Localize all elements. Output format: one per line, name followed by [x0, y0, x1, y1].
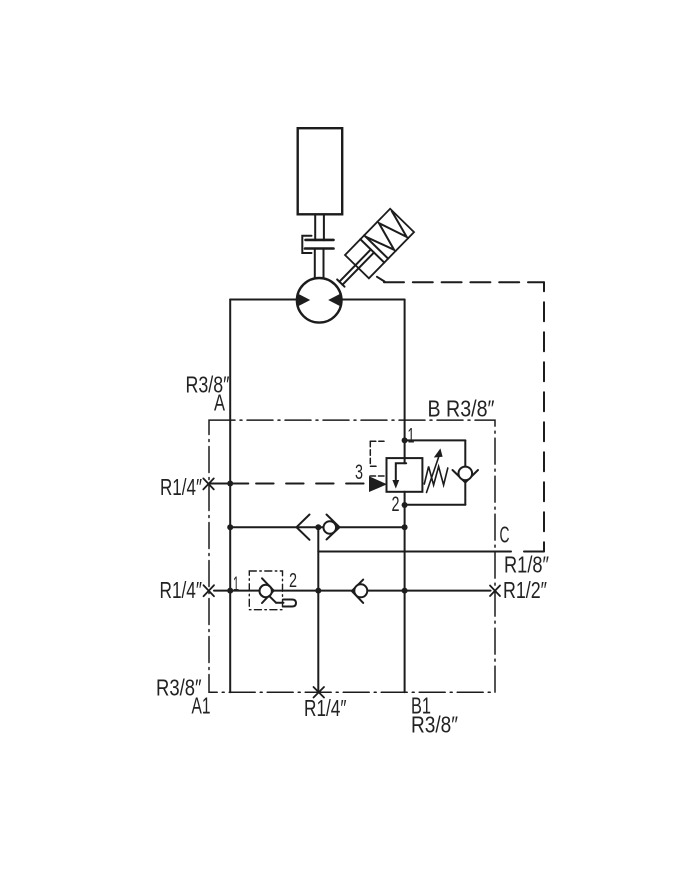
junction dot B-line — [402, 524, 408, 530]
svg-text:R1/4″: R1/4″ — [160, 474, 202, 500]
flow arrowhead left — [297, 515, 310, 540]
svg-text:C: C — [500, 522, 510, 548]
svg-text:3: 3 — [355, 461, 363, 484]
bypass loop top — [405, 439, 466, 441]
bypass loop right upper — [464, 440, 466, 466]
node 1 junction — [402, 437, 408, 443]
pump arrow left — [297, 293, 310, 306]
wire A-line left vertical — [229, 300, 231, 693]
pilot check valve PC1 dashed box — [249, 571, 282, 610]
svg-text:A1: A1 — [192, 693, 211, 719]
check valve CV3 seat — [352, 580, 363, 603]
svg-text:R3/8″: R3/8″ — [411, 712, 458, 738]
coupling disc — [306, 239, 334, 242]
PC1 ball — [260, 585, 272, 597]
svg-text:1: 1 — [408, 425, 415, 448]
junction dot lower mid — [315, 588, 321, 594]
svg-text:R1/8″: R1/8″ — [504, 552, 549, 578]
relief valve V1 body — [387, 458, 423, 492]
node 2 junction — [402, 502, 408, 508]
PC1 drain hook — [269, 596, 276, 603]
pilot sense junction dot — [227, 481, 233, 487]
brake actuator cylinder (rotated) — [329, 209, 414, 295]
pump arrow right — [328, 293, 341, 306]
port X pilot R1/4 — [203, 478, 214, 489]
check valve CV2 ball — [324, 521, 337, 534]
bypass loop right lower — [464, 480, 466, 505]
wire pump right — [342, 299, 405, 301]
port X right R1/2 — [490, 586, 500, 597]
relief adjust arrow — [427, 455, 440, 493]
rod end cap — [337, 279, 344, 286]
relief valve internal arrowhead — [392, 480, 399, 489]
relief valve spring — [424, 467, 448, 486]
svg-text:R1/2″: R1/2″ — [503, 577, 547, 603]
junction dot lower B-line — [402, 588, 408, 594]
relief valve internal path — [396, 463, 406, 481]
piston — [360, 239, 384, 262]
pilot line from actuator (dashed) — [377, 277, 385, 282]
relief valve pilot box (dashed) — [370, 441, 387, 476]
check valve CV1 seat — [453, 470, 479, 483]
shaft lower — [314, 249, 316, 279]
rod — [339, 249, 370, 281]
shaft upper — [314, 214, 316, 240]
junction dot lower A-line — [227, 588, 233, 594]
manifold boundary box (dash-dot) — [209, 420, 495, 692]
relief pilot arrowhead — [369, 476, 387, 492]
svg-text:R1/4″: R1/4″ — [304, 695, 347, 721]
spring — [366, 211, 413, 258]
wire B-line right vertical upper — [404, 300, 406, 464]
svg-text:B R3/8″: B R3/8″ — [428, 396, 495, 422]
pilot sense line (dashed) — [256, 483, 369, 485]
svg-text:2: 2 — [289, 570, 297, 592]
junction dot A-line — [227, 524, 233, 530]
wire pump left — [230, 299, 297, 301]
C port line — [318, 551, 511, 553]
junction dot mid — [315, 524, 321, 530]
check valve CV1 ball — [459, 467, 473, 481]
port X left — [204, 585, 215, 596]
coupling bracket — [302, 236, 311, 253]
check valve CV2 seat — [327, 515, 340, 540]
port X bottom R1/4 — [314, 687, 325, 698]
lower port line — [214, 590, 491, 592]
svg-text:R1/4″: R1/4″ — [160, 577, 203, 603]
check valve CV3 ball — [354, 584, 367, 597]
svg-text:2: 2 — [392, 493, 400, 516]
bypass loop bottom — [405, 504, 466, 506]
wire B-line right vertical lower — [404, 492, 406, 693]
electric motor body M1 — [298, 128, 343, 214]
svg-text:1: 1 — [233, 574, 239, 596]
PC1 seat — [262, 578, 274, 603]
svg-text:A: A — [214, 390, 225, 416]
pump P1 circle — [297, 278, 342, 323]
branch down to C — [317, 527, 319, 692]
pilot sense line lead — [209, 483, 249, 485]
middle branch line — [230, 526, 404, 528]
